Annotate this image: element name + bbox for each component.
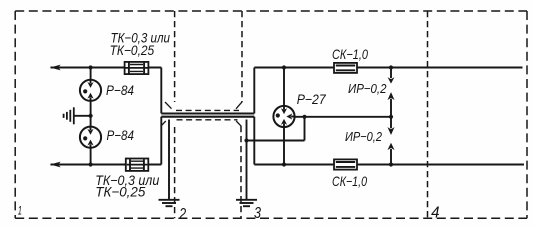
cable conductor lower — [161, 116, 254, 118]
wire: right riser up from cable — [253, 68, 255, 114]
spark gap IR-0,2 upper: electrode from mid node — [388, 92, 395, 117]
node: spark gap tap on L2 — [389, 162, 393, 166]
ground symbol (cable shield right) — [236, 200, 257, 206]
svg-text:Р−27: Р−27 — [297, 92, 327, 107]
ground stub wire (left section) — [75, 115, 91, 117]
shield flare bottom-left — [161, 121, 166, 126]
wire: left line L1 (top) — [51, 67, 162, 69]
node: ground tap of P-84 pair — [89, 114, 93, 118]
cable shield ground wire right — [246, 120, 248, 200]
node: P-27 top tap on L1 — [282, 65, 286, 69]
fuse F1 TK-0,3 (top) — [125, 62, 149, 74]
node: L1 tap — [89, 65, 93, 69]
shield flare top-left — [165, 102, 172, 109]
wire from lower arrester to L2 — [90, 148, 92, 165]
spark gap IR-0,2 lower: electrode from mid node — [388, 117, 395, 135]
arrester P-84 upper circle — [80, 80, 101, 101]
wire: tap down from mid junction — [304, 117, 306, 141]
zone boundary 1|2 upper — [174, 11, 176, 102]
spark gap IR-0,2 upper: electrode from L1 — [388, 68, 395, 84]
arrester P-84 lower circle — [80, 127, 101, 148]
wire: right riser down from cable — [253, 117, 255, 165]
node: tap on shield ground wire — [244, 138, 248, 142]
wire: left riser up from cable — [160, 117, 162, 165]
node: P-27 bottom tap on L2 — [282, 162, 286, 166]
spark gap IR-0,2 lower: electrode from L2 — [388, 143, 395, 165]
svg-text:4: 4 — [431, 205, 440, 222]
svg-text:СК−1,0: СК−1,0 — [332, 47, 368, 62]
svg-text:3: 3 — [254, 205, 261, 222]
fuse F2 TK-0,3 (bottom) — [126, 159, 149, 171]
fuse F3 SK-1,0 (top) — [334, 63, 357, 73]
wire: P-27 right terminal to mid node — [295, 116, 391, 118]
wire between arresters — [90, 101, 92, 127]
svg-text:ТК−0,25: ТК−0,25 — [95, 185, 145, 200]
zone boundary 2|3 upper — [241, 11, 243, 102]
svg-text:1: 1 — [18, 203, 22, 217]
cable conductor upper — [161, 112, 254, 114]
wire: left line L2 (bottom) — [51, 164, 162, 166]
arrow to subscriber on L1 — [50, 65, 61, 71]
shield flare top-right — [236, 102, 242, 109]
arrow to subscriber on L2 — [50, 162, 61, 168]
node: L2 tap — [89, 162, 93, 166]
wire: right line L1 (top) — [254, 67, 522, 69]
svg-text:ТК−0,25: ТК−0,25 — [110, 43, 155, 58]
svg-text:ИР−0,2: ИР−0,2 — [348, 81, 387, 96]
cable shield boundary bottom (dashed along cable) — [177, 119, 238, 121]
svg-text:Р−84: Р−84 — [107, 128, 135, 143]
wire: tap across to shield ground — [247, 140, 305, 142]
arrester P-84 upper: stub from L1 — [90, 68, 92, 80]
zone boundary 2|3 lower — [240, 126, 242, 218]
svg-text:ИР−0,2: ИР−0,2 — [345, 129, 383, 144]
shield flare bottom-right — [236, 121, 241, 126]
zone boundary 3|4 — [427, 11, 429, 218]
svg-text:2: 2 — [178, 206, 186, 223]
wire from P-27 bottom to L2 — [283, 127, 285, 164]
node: spark gap mid junction — [389, 115, 393, 119]
node: mid junction — [302, 115, 306, 119]
wire: right line L2 (bottom) — [254, 164, 524, 166]
fuse F4 SK-1,0 (bottom) — [334, 159, 357, 169]
arrester P-27 circle — [273, 106, 294, 127]
ground symbol (cable shield left) — [159, 200, 180, 206]
node: spark gap tap on L1 — [389, 65, 393, 69]
cable shield ground wire left — [168, 120, 170, 200]
arrester P-27: stub from L1 — [283, 68, 285, 106]
cable shield boundary top (dashed along cable) — [176, 109, 239, 111]
svg-text:СК−1,0: СК−1,0 — [332, 174, 367, 189]
wire: left riser down to cable — [160, 68, 162, 114]
ground symbol (left section, rotated) — [64, 107, 74, 124]
svg-text:Р−84: Р−84 — [106, 83, 134, 98]
zone boundary 1|2 lower — [174, 127, 176, 218]
